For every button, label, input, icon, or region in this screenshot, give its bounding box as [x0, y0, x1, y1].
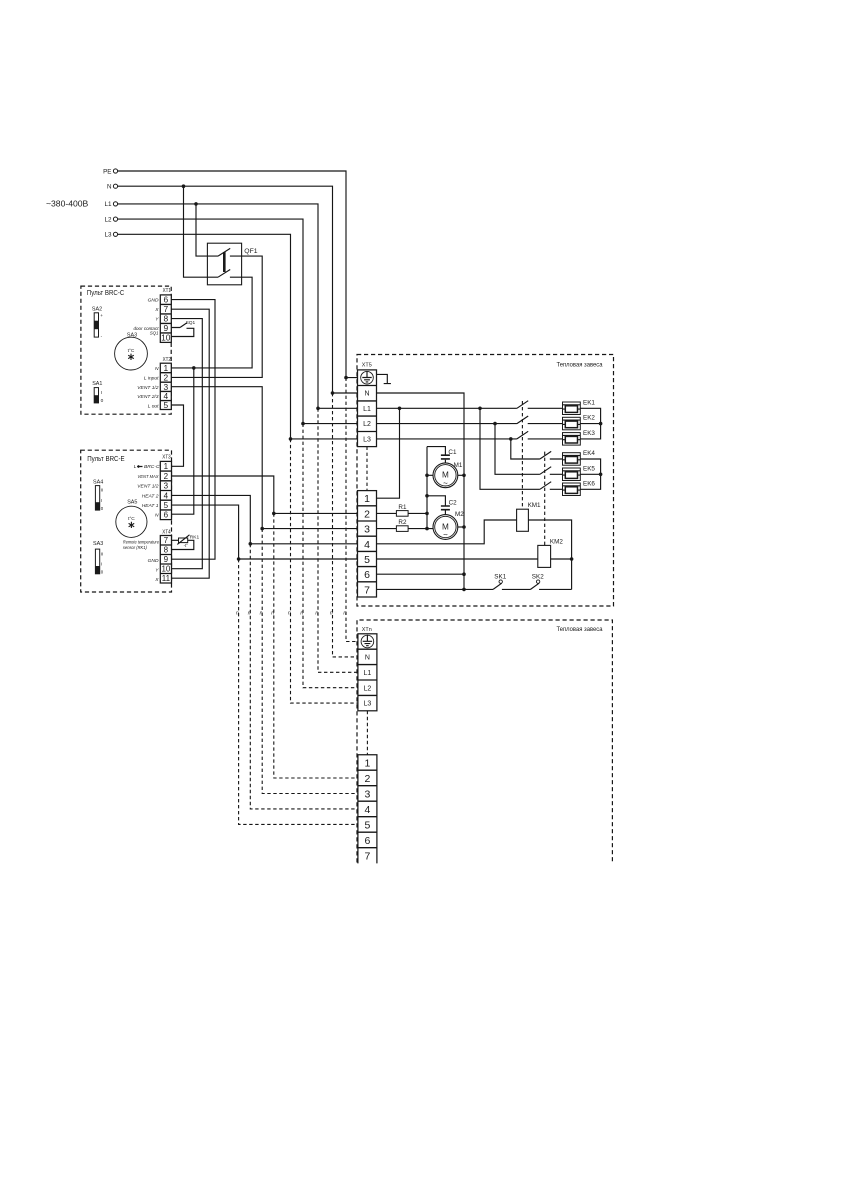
svg-text:5: 5 — [163, 400, 168, 410]
svg-text:II: II — [101, 551, 103, 556]
contactor KM1 mechanical link — [521, 401, 523, 509]
ground symbol XTn PE terminal — [361, 635, 374, 648]
svg-text:BRC-C: BRC-C — [144, 464, 160, 470]
label ~380-400V supply — [46, 199, 89, 209]
contactor coil KM2 — [538, 538, 564, 567]
svg-text:X: X — [154, 577, 159, 583]
motor M2 — [433, 511, 464, 540]
svg-text:RK1: RK1 — [190, 534, 200, 540]
svg-text:Пульт BRC-C: Пульт BRC-C — [87, 288, 125, 297]
wire motor capacitor bus — [425, 447, 429, 531]
switch SA2 — [92, 306, 103, 339]
svg-text:GND: GND — [148, 558, 159, 564]
svg-text:M1: M1 — [454, 462, 463, 469]
svg-text:6: 6 — [164, 511, 169, 520]
terminal strip XTn control section — [358, 755, 377, 864]
svg-text:n: n — [260, 611, 263, 617]
wire HEAT 1 dashed continuation to XTn-5 — [239, 559, 358, 824]
terminal strip XTn power section — [358, 634, 377, 711]
svg-text:3: 3 — [164, 482, 169, 491]
svg-text:VENT 1/2: VENT 1/2 — [137, 385, 158, 391]
svg-text:~: ~ — [443, 531, 448, 540]
svg-text:1: 1 — [164, 462, 169, 471]
svg-text:5: 5 — [364, 554, 370, 566]
wire L1 row to KM1 contact — [377, 401, 563, 410]
svg-text:4: 4 — [164, 491, 169, 500]
svg-text:n: n — [330, 611, 333, 617]
svg-text:3: 3 — [364, 524, 370, 536]
svg-text:EK4: EK4 — [583, 450, 595, 457]
svg-text:SA3: SA3 — [93, 541, 103, 547]
wire L1 dashed continuation to XTn — [318, 408, 358, 672]
wire KM1 coil to SK circuit — [528, 520, 573, 589]
wire N dashed continuation to XTn — [333, 393, 358, 657]
svg-text:X: X — [154, 307, 159, 313]
wire VENT MAX XT3-2 to XT5-2 — [172, 476, 358, 515]
svg-text:M2: M2 — [455, 511, 464, 518]
wire XT5-7 thermal switch line — [377, 588, 572, 590]
svg-text:EK5: EK5 — [583, 465, 595, 472]
pin labels XT1 — [134, 298, 160, 336]
pin labels XT3 — [134, 464, 160, 519]
wire L3 dashed continuation to XTn — [291, 439, 358, 703]
control panel BRC-C box — [81, 286, 171, 414]
terminal strip XT5 power section — [358, 370, 377, 447]
wire X bus XT1-7 to XT4-11 — [171, 309, 209, 578]
heater EK3 — [563, 430, 596, 445]
wire VENT MAX dashed continuation to XTn-2 — [274, 513, 358, 778]
wire L3 branch to KM2 contact EK4 — [511, 439, 563, 459]
resistor R2 — [377, 519, 434, 531]
svg-text:SK2: SK2 — [532, 573, 544, 580]
wire L3 rail to XT5 — [118, 234, 358, 440]
svg-text:5: 5 — [164, 501, 169, 510]
svg-text:L1: L1 — [104, 201, 112, 208]
wire VENT 1/2 XT2-3 to XT5-3 — [171, 387, 357, 531]
label remote temperature sensor — [123, 540, 159, 551]
thermostat knob SA3 — [115, 333, 148, 371]
svg-text:n: n — [236, 611, 239, 617]
svg-text:~380-400В: ~380-400В — [46, 199, 89, 209]
svg-text:N: N — [364, 391, 369, 398]
wire L1 branch to QF1 — [196, 204, 207, 256]
svg-text:t°C: t°C — [128, 348, 135, 354]
wire KM2 coil right lead — [551, 558, 572, 560]
svg-text:L1: L1 — [363, 406, 371, 413]
terminal strip XT1 — [160, 288, 171, 343]
svg-text:n: n — [288, 611, 291, 617]
svg-text:+: + — [100, 313, 103, 318]
svg-text:5: 5 — [364, 820, 370, 832]
svg-text:SK1: SK1 — [494, 573, 506, 580]
svg-text:L3: L3 — [363, 437, 371, 444]
svg-text:N: N — [155, 513, 159, 519]
wire GND bus XT1-6 to XT4-9 — [171, 300, 215, 560]
svg-text:VENT MAX: VENT MAX — [138, 474, 160, 480]
svg-text:2: 2 — [164, 472, 169, 481]
wire L2 branch to KM2 contact EK5 — [495, 424, 563, 475]
wire VENT 1/2 dashed continuation to XTn-3 — [262, 529, 358, 794]
svg-text:4: 4 — [364, 804, 370, 816]
thermal switch SK2 — [531, 573, 545, 589]
switch SA1 — [92, 381, 103, 404]
switch SA3 (BRC-E) — [93, 541, 104, 574]
switch SA4 — [93, 479, 104, 511]
svg-text:9: 9 — [163, 323, 168, 333]
svg-text:I: I — [101, 562, 102, 567]
svg-text:C2: C2 — [449, 499, 458, 506]
svg-text:Пульт BRC-E: Пульт BRC-E — [87, 454, 125, 463]
wire N rail to XT5 — [118, 184, 358, 394]
wire L3 row to KM1 contact — [377, 431, 563, 440]
svg-text:N: N — [155, 366, 159, 372]
svg-text:2: 2 — [364, 773, 370, 785]
svg-text:Тепловая завеса: Тепловая завеса — [557, 362, 603, 369]
heater EK5 — [563, 465, 596, 480]
svg-text:EK2: EK2 — [583, 415, 595, 422]
svg-text:XT1: XT1 — [163, 288, 171, 294]
svg-text:I: I — [101, 498, 102, 503]
heater EK6 — [563, 480, 596, 495]
svg-text:4: 4 — [364, 539, 370, 551]
heater EK4 — [563, 450, 596, 465]
svg-text:EK6: EK6 — [583, 480, 595, 487]
node L2 terminal label — [104, 216, 117, 223]
svg-text:0: 0 — [101, 398, 104, 404]
wire XT5-6 to N bus — [377, 573, 465, 575]
svg-text:1: 1 — [163, 363, 168, 373]
terminal strip XT3 — [160, 455, 171, 520]
svg-text:8: 8 — [163, 314, 168, 324]
svg-text:L1: L1 — [364, 670, 372, 677]
wire N branch to QF1 — [184, 186, 208, 277]
heater EK1 — [563, 399, 596, 414]
svg-text:I: I — [101, 390, 102, 396]
svg-text:7: 7 — [164, 536, 169, 545]
ground symbol external earth — [377, 374, 391, 383]
svg-text:L2: L2 — [363, 421, 371, 428]
wire L1 branch to KM2 contact EK6 — [480, 408, 563, 489]
wire QF1 N output to XT2-1 — [171, 277, 252, 370]
svg-text:SA4: SA4 — [93, 479, 103, 485]
svg-text:n: n — [300, 611, 303, 617]
svg-text:10: 10 — [161, 565, 170, 574]
node L1 terminal label — [104, 201, 117, 208]
svg-text:KM2: KM2 — [550, 538, 563, 545]
terminal strip XT4 — [160, 529, 171, 583]
contactor coil KM1 — [517, 502, 541, 532]
svg-text:n: n — [315, 611, 318, 617]
svg-text:EK3: EK3 — [583, 430, 595, 437]
pin labels XT4 — [148, 558, 160, 583]
resistor R1 — [377, 504, 428, 516]
svg-text:VENT 2/3: VENT 2/3 — [137, 394, 158, 400]
pin labels XT2 — [137, 366, 159, 409]
svg-text:QF1: QF1 — [244, 248, 257, 255]
wire HEAT 1 XT3-5 to XT5-5 — [172, 505, 358, 561]
node L3 terminal label — [104, 232, 117, 239]
svg-text:n: n — [343, 611, 346, 617]
svg-text:R1: R1 — [398, 504, 407, 511]
wire N bus XT2-1 to XT3-6 — [172, 368, 194, 514]
svg-text:1: 1 — [364, 758, 370, 770]
wire PE dashed continuation to XTn — [346, 378, 358, 642]
wire L out XT2-5 to XT3-1 — [171, 405, 183, 466]
wire star point EK4-EK6 — [580, 459, 602, 489]
svg-text:R2: R2 — [398, 519, 407, 526]
wire XT5-5 to KM2 coil — [377, 558, 538, 560]
svg-text:L2: L2 — [364, 685, 372, 692]
air curtain 1 box (Тепловая завеса) — [357, 355, 614, 607]
control panel BRC-E box — [81, 450, 172, 592]
svg-text:PE: PE — [103, 168, 111, 175]
svg-text:SQ1: SQ1 — [186, 320, 196, 326]
svg-text:SA1: SA1 — [92, 381, 102, 387]
wire PE rail to XT5 — [118, 171, 358, 379]
thermostat knob SA5 — [116, 499, 147, 537]
svg-text:L out: L out — [148, 403, 159, 409]
svg-text:XT4: XT4 — [162, 529, 170, 535]
wire HEAT 2 XT3-4 to XT5-4 — [172, 495, 358, 545]
svg-text:EK1: EK1 — [583, 399, 595, 406]
svg-text:N: N — [107, 184, 112, 191]
wire Y bus XT1-8 to XT4-10 — [171, 319, 202, 569]
svg-text:GND: GND — [148, 298, 159, 304]
terminal strip XT2 — [160, 357, 171, 410]
svg-text:6: 6 — [163, 295, 168, 305]
node n labels on branch lines — [236, 611, 346, 617]
svg-text:HEAT 1: HEAT 1 — [142, 503, 159, 509]
svg-text:1: 1 — [364, 493, 370, 505]
ground symbol XT5 PE terminal — [361, 371, 374, 384]
svg-text:6: 6 — [364, 835, 370, 847]
door contact switch SQ1 — [171, 320, 195, 336]
svg-text:3: 3 — [364, 789, 370, 801]
svg-text:sensor (RK1): sensor (RK1) — [123, 545, 147, 551]
svg-text:-t°: -t° — [184, 543, 189, 548]
svg-text:10: 10 — [161, 333, 171, 343]
svg-text:Тепловая завеса: Тепловая завеса — [557, 626, 603, 633]
wire star point EK1-EK3 — [580, 408, 602, 439]
svg-text:Remote temperature: Remote temperature — [123, 540, 159, 546]
capacitor C2 — [427, 496, 457, 515]
svg-text:SA5: SA5 — [127, 499, 137, 505]
wire XTn strip middle link — [366, 711, 368, 755]
wire L1 rail to XT5 — [118, 202, 358, 410]
svg-text:HEAT 2: HEAT 2 — [142, 493, 159, 499]
wire L2 row to KM1 contact — [377, 416, 563, 425]
svg-text:t°C: t°C — [128, 516, 135, 522]
svg-text:II: II — [101, 488, 103, 493]
thermal switch SK1 — [493, 573, 507, 589]
thermistor RK1 — [172, 534, 200, 549]
wire HEAT 2 dashed continuation to XTn-4 — [250, 544, 358, 809]
svg-text:L2: L2 — [104, 216, 112, 223]
circuit breaker QF1 — [207, 243, 257, 285]
wire L1 to XT5-1 — [377, 408, 400, 498]
svg-text:SA2: SA2 — [92, 306, 102, 312]
node N terminal label — [107, 184, 118, 191]
svg-text:VENT 1/2: VENT 1/2 — [137, 484, 158, 490]
svg-text:N: N — [365, 655, 370, 662]
contactor KM2 mechanical link — [544, 452, 546, 546]
svg-text:L input: L input — [144, 376, 159, 382]
svg-text:SQ1: SQ1 — [150, 331, 159, 336]
svg-text:XT5: XT5 — [362, 363, 372, 369]
svg-text:KM1: KM1 — [528, 502, 541, 509]
capacitor C1 — [427, 447, 457, 463]
svg-text:L3: L3 — [104, 232, 112, 239]
svg-text:n: n — [248, 611, 251, 617]
air curtain n box (Тепловая завеса) — [357, 620, 612, 863]
svg-text:C1: C1 — [448, 449, 457, 456]
terminal strip XT5 control section — [358, 491, 377, 597]
svg-text:L3: L3 — [364, 701, 372, 708]
wire N bus inside curtain — [377, 393, 466, 591]
motor M1 — [427, 462, 464, 488]
svg-text:n: n — [271, 611, 274, 617]
svg-text:L: L — [134, 464, 137, 470]
svg-text:~: ~ — [443, 479, 448, 488]
svg-text:XTn: XTn — [362, 627, 372, 633]
svg-text:7: 7 — [364, 584, 370, 596]
svg-text:6: 6 — [364, 569, 370, 581]
heater EK2 — [563, 415, 596, 430]
svg-text:7: 7 — [364, 851, 370, 863]
wire XT5 strip middle link — [366, 447, 368, 491]
svg-text:XT3: XT3 — [162, 455, 170, 461]
wire XT5-4 to KM1 coil — [377, 520, 517, 544]
svg-text:8: 8 — [164, 546, 169, 555]
wire QF1 L output to XT2-2 — [171, 256, 262, 377]
svg-text:2: 2 — [364, 508, 370, 520]
wire L2 dashed continuation to XTn — [303, 424, 358, 688]
svg-text:9: 9 — [164, 555, 169, 564]
wire L2 rail to XT5 — [118, 219, 358, 425]
node PE terminal label — [103, 168, 118, 175]
svg-text:11: 11 — [162, 574, 171, 583]
